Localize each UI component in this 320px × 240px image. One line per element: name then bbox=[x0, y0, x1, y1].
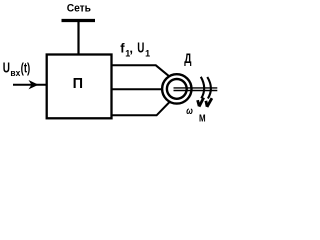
svg-text:Сеть: Сеть bbox=[67, 2, 92, 14]
motor inner circle bbox=[167, 79, 187, 99]
svg-text:вх: вх bbox=[10, 68, 20, 78]
svg-text:,: , bbox=[129, 40, 133, 55]
wire phase 3 (bottom) bbox=[112, 101, 172, 116]
motor Д outer circle bbox=[162, 74, 191, 103]
mains terminal bar bbox=[62, 19, 96, 22]
svg-text:U: U bbox=[137, 40, 144, 56]
svg-text:ω: ω bbox=[186, 105, 193, 117]
wire phase 1 (top) bbox=[112, 65, 172, 78]
converter block П bbox=[47, 55, 112, 119]
shaft double line bbox=[174, 87, 218, 89]
svg-text:Д: Д bbox=[184, 50, 191, 66]
svg-text:(t): (t) bbox=[21, 61, 31, 76]
wire input with arrow into converter bbox=[13, 84, 47, 86]
svg-text:М: М bbox=[199, 114, 206, 125]
rotation arrow omega head bbox=[198, 100, 200, 106]
svg-text:П: П bbox=[73, 76, 83, 92]
svg-text:1: 1 bbox=[145, 48, 150, 58]
wire mains bar to converter bbox=[77, 21, 79, 56]
rotation arrow M (arc) bbox=[207, 77, 211, 99]
rotation arrow M head bbox=[206, 101, 207, 107]
wire phase 2 (middle) bbox=[112, 88, 171, 90]
rotation arrow omega (arc) bbox=[201, 77, 204, 99]
svg-text:U: U bbox=[3, 61, 10, 77]
